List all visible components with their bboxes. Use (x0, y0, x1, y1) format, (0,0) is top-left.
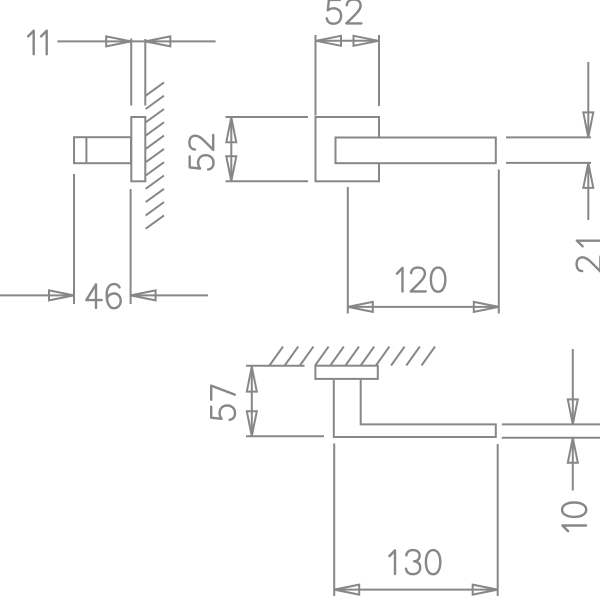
dim 52 side: down arrowhead (226, 156, 236, 181)
dim 21: upper dimension line segment (587, 62, 589, 137)
dim 11: left-pointing arrowhead (145, 36, 170, 46)
dim 120: left arrowhead (348, 302, 373, 312)
dim 130: right extension line (497, 444, 499, 596)
dim 52 side: up arrowhead (226, 117, 236, 142)
dim 21: lower dimension line segment (587, 163, 589, 220)
dim 11: dimension line (57, 40, 215, 42)
dim 52 side: dimension line (230, 117, 232, 181)
side view: lever end cap divider line (85, 137, 87, 163)
dim 57: down arrowhead (247, 411, 257, 436)
dim 120: right arrowhead (474, 302, 499, 312)
dim 10: up arrowhead (568, 438, 578, 463)
dim 52 side: bottom extension line (226, 180, 309, 182)
dim 10: lower dimension line segment (572, 438, 574, 491)
dim 57: up arrowhead (247, 367, 257, 392)
dim 130: right arrowhead (473, 585, 498, 595)
dim 46: dimension line left segment (0, 294, 74, 296)
front view: lever bar (336, 138, 496, 164)
dim 46: dimension line right segment (131, 294, 208, 296)
bottom view: wall face line (246, 365, 305, 367)
dim 21: rotated label text (577, 241, 600, 272)
dim 10: rotated label text (562, 503, 586, 532)
dim 52 top: right arrowhead (354, 36, 379, 46)
dim 10: top extension line (502, 423, 600, 425)
dim 130: left extension line (333, 444, 335, 596)
dim 52 top: left extension line (315, 35, 317, 116)
dim 120: left extension line (347, 187, 349, 314)
dim 21: down arrowhead (583, 112, 593, 137)
dim 52 side: rotated label text (189, 135, 213, 170)
dim 57: bottom extension line (246, 435, 324, 437)
dim 11: label text (28, 31, 47, 55)
bottom view: wall hatching (270, 347, 436, 366)
side view: rosette plate (131, 117, 145, 181)
dim 52 top: left arrowhead (316, 36, 341, 46)
dim 130: dimension line (334, 589, 498, 591)
dim 10: upper dimension line segment (572, 349, 574, 424)
dim 46: label text (86, 284, 120, 308)
dim 11: right-pointing arrowhead (106, 36, 131, 46)
dim 52 top: right extension line (378, 35, 380, 106)
dim 21: top extension line (506, 136, 591, 138)
dim 52 side: top extension line (226, 116, 309, 118)
dim 120: right extension line (498, 170, 500, 314)
bottom view: rosette plate profile (315, 366, 377, 379)
front view: square rosette (316, 117, 380, 181)
dim 21: up arrowhead (583, 163, 593, 188)
dim 52 top: dimension line (316, 40, 380, 42)
dim 11: left extension line (130, 39, 132, 106)
dim 52 top: label text (327, 0, 362, 24)
dim 120: label text (397, 268, 445, 292)
dim 120: dimension line (348, 306, 499, 308)
dim 57: dimension line (251, 367, 253, 437)
dim 46: left-pointing arrowhead (131, 290, 156, 300)
dim 21: bottom extension line (506, 162, 591, 164)
dim 46: right-pointing arrowhead (49, 290, 74, 300)
side view: lever neck/stem rectangle (74, 137, 131, 163)
dim 130: left arrowhead (334, 585, 359, 595)
side view: wall face line above rosette (144, 39, 146, 106)
bottom view: lever profile (334, 380, 496, 437)
dim 57: rotated label text (211, 386, 235, 420)
dim 46: right extension line (130, 189, 132, 304)
side view: wall hatching (146, 82, 164, 228)
dim 10: bottom extension line (502, 437, 600, 439)
dim 130: label text (389, 550, 440, 574)
dim 46: left extension line (73, 174, 75, 304)
dim 10: down arrowhead (568, 399, 578, 424)
